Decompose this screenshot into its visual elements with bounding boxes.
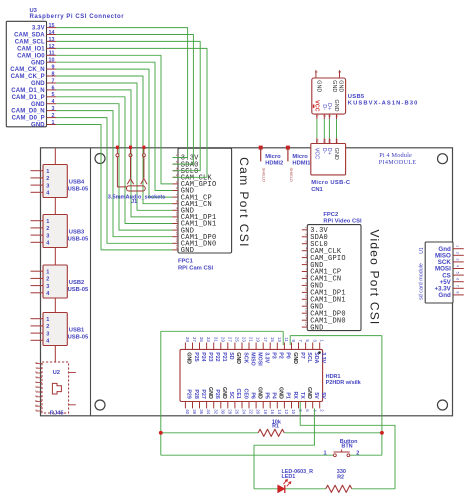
svg-text:1: 1 — [455, 245, 459, 247]
HDR1 top pin 5 stub — [305, 343, 307, 350]
svg-text:20: 20 — [256, 409, 261, 414]
connector U3 body — [6, 21, 46, 127]
HDR1 top pin 35 number — [199, 337, 204, 342]
HDR1 bottom pin 18 number — [263, 409, 268, 414]
svg-text:3: 3 — [455, 258, 459, 260]
HDR1 top pin 11 name P0 — [285, 352, 291, 359]
svg-text:3.3V: 3.3V — [320, 352, 326, 363]
HDR1 bottom pin 34 stub — [206, 402, 208, 409]
USB5 pin name GND bottom — [333, 100, 339, 112]
wire red chain USB3 to USB2 — [54, 248, 56, 266]
svg-text:25: 25 — [235, 337, 240, 342]
svg-text:D-: D- — [321, 148, 327, 154]
U1 pin 8 stub — [453, 294, 464, 296]
svg-text:9: 9 — [175, 207, 179, 209]
U1 pin 3 name SCK — [438, 259, 452, 266]
USB5 bottom pin 1 number — [315, 115, 319, 117]
U3 pin 5 name CAM_D1_P — [12, 95, 45, 101]
U3 pin 6 number — [52, 85, 55, 91]
FPC1 pin 1 name 3.3V — [181, 155, 199, 163]
U3 pin 13 number — [49, 37, 55, 43]
U1 pin 4 stub — [453, 268, 464, 270]
svg-text:A3: A3 — [328, 139, 332, 143]
FPC1 pin 3 stub — [173, 170, 179, 172]
U2 RJ45 jack symbol — [52, 383, 61, 394]
FPC2 pin 14 stub — [302, 319, 308, 321]
FPC2 pin 7 name CAM1_CP — [310, 269, 341, 277]
U1 pin 4 name MOSI — [435, 266, 451, 273]
svg-text:17: 17 — [263, 337, 268, 342]
audio jack J1 reference J1 — [131, 199, 137, 205]
HDR1 bottom pin 40 name P29 — [186, 389, 192, 398]
wire right rail vertical node B — [381, 336, 383, 456]
svg-text:8: 8 — [175, 200, 179, 202]
svg-text:14: 14 — [304, 315, 308, 319]
HDR1 top pin 23 name SCK — [242, 352, 248, 363]
svg-text:15: 15 — [175, 244, 179, 248]
HDR1 bottom pin 14 stub — [276, 402, 278, 409]
FPC2 pin 5 name CAM_GPIO — [310, 255, 346, 263]
HDR1 top pin 27 stub — [227, 343, 229, 350]
svg-text:4: 4 — [304, 247, 308, 249]
USB4 label USB4 — [69, 180, 85, 186]
svg-text:SDA: SDA — [313, 352, 319, 363]
HDR1 bottom pin 40 number — [185, 409, 190, 414]
svg-text:TX: TX — [299, 392, 305, 399]
HDR1 bottom pin 18 stub — [262, 402, 264, 409]
svg-text:8: 8 — [304, 275, 308, 277]
FPC2 pin 11 number — [304, 294, 308, 298]
svg-text:USB2: USB2 — [69, 280, 84, 286]
wire loop2 from HDR1 pin 9 vertical — [289, 336, 291, 345]
svg-text:CAM_SCL: CAM_SCL — [15, 40, 45, 46]
svg-text:USB4: USB4 — [69, 180, 85, 186]
svg-text:D-: D- — [321, 104, 327, 110]
USB4 pin 1 stub — [31, 170, 44, 172]
USB1 pin 4 stub — [31, 339, 44, 341]
wire R1 row left segment — [161, 432, 258, 434]
resistor R2 value 330 — [337, 469, 346, 475]
svg-text:3.3V: 3.3V — [32, 26, 45, 32]
connector HDMI1 label HDMI1 — [292, 161, 311, 167]
module PI4MODULE internal left edge line — [90, 148, 92, 416]
U3 pin 12 number — [49, 44, 55, 50]
HDR1 top pin 25 number — [235, 337, 240, 342]
svg-text:4: 4 — [455, 265, 459, 267]
resistor R1 body — [258, 429, 284, 436]
U1 pin 5 number — [455, 272, 459, 274]
HDR1 bottom pin 36 number — [199, 409, 204, 414]
svg-text:D+: D+ — [326, 148, 332, 155]
svg-text:30: 30 — [220, 409, 225, 414]
FPC2 pin 7 stub — [302, 271, 308, 273]
svg-text:38: 38 — [192, 409, 197, 414]
svg-text:22: 22 — [249, 409, 254, 414]
FPC2 pin 4 name CAM_CLK — [310, 248, 342, 256]
U3 pin 14 name CAM_SDA — [14, 33, 45, 39]
FPC2 value RPi Video CSI — [323, 218, 362, 224]
svg-text:GND: GND — [278, 387, 284, 399]
svg-text:11: 11 — [284, 337, 289, 342]
CN1 reference CN1 — [311, 187, 323, 193]
FPC2 pin 3 stub — [302, 243, 308, 245]
U1 pin 3 number — [455, 258, 459, 260]
svg-text:GND: GND — [338, 80, 344, 92]
HDR1 bottom pin 16 stub — [269, 402, 271, 409]
FPC1 pin 10 name CAM1_DP1 — [181, 214, 217, 222]
FPC2 pin 6 stub — [302, 264, 308, 266]
audio jack J1 ring contact — [141, 157, 147, 185]
FPC1 pin 2 number — [175, 161, 179, 163]
svg-text:5: 5 — [304, 254, 308, 256]
FPC2 pin 13 name CAM1_DP0 — [310, 310, 346, 318]
USB2 pin 4 stub — [31, 292, 44, 294]
HDR1 top pin 3 number — [312, 339, 317, 342]
HDR1 top pin 27 name SD — [228, 352, 234, 360]
audio jack J1 plug body — [127, 186, 146, 191]
wire USB5 pin 2 to CN1 — [323, 119, 325, 138]
connector HDMI2 label Micro — [265, 154, 281, 160]
resistor R1 reference — [272, 423, 279, 429]
U3 pin 6 stub — [47, 89, 57, 91]
U3 pin 6 name CAM_D1_N — [11, 88, 45, 94]
HDR1 top pin 33 stub — [206, 343, 208, 350]
HDR1 bottom pin 18 name P5 — [264, 392, 270, 399]
FPC1 pin 12 name GND — [181, 227, 194, 235]
wire USB5 pin 4 to CN1 — [336, 119, 338, 138]
U2 right pin stub lower — [69, 404, 76, 406]
svg-text:6: 6 — [304, 261, 308, 263]
HDR1 top pin 11 stub — [283, 343, 285, 350]
wire USB5 pin 3 to CN1 — [328, 119, 330, 138]
USB2 pin 4 number — [46, 291, 50, 297]
svg-text:7: 7 — [175, 194, 179, 196]
CN1 top pin 2 number — [323, 139, 327, 143]
U3 pin 13 stub — [47, 40, 57, 42]
HDR1 bottom pin 40 stub — [184, 402, 186, 409]
svg-text:Gnd: Gnd — [438, 292, 451, 299]
USB2 pin 3 number — [46, 284, 49, 290]
connector HDMI1 label Micro — [292, 154, 308, 160]
U3 pin 11 number — [49, 51, 55, 57]
svg-text:4: 4 — [34, 381, 38, 383]
U1 pin 2 name MISO — [435, 253, 451, 260]
wire CAM_SCL U3 pin 13 to FPC1 pin 3 — [56, 41, 200, 170]
HDR1 top pin 17 number — [263, 337, 268, 342]
FPC2 pin 14 name CAM1_DN0 — [310, 317, 346, 325]
U3 pin 9 name CAM_CK_N — [10, 67, 45, 73]
connector HDMI1 pin pad — [286, 146, 290, 150]
svg-text:P26: P26 — [214, 389, 220, 398]
USB4 pin 4 number — [46, 191, 50, 197]
svg-text:FPC2: FPC2 — [323, 212, 338, 218]
U1 pin 1 number — [455, 245, 459, 247]
svg-text:37: 37 — [192, 337, 197, 342]
svg-text:SHIELD: SHIELD — [262, 168, 267, 183]
HDR1 top pin 29 stub — [220, 343, 222, 350]
HDR1 top pin 29 name P21 — [221, 352, 227, 361]
HDR1 top pin 19 number — [256, 337, 261, 342]
svg-text:CAM_CK_N: CAM_CK_N — [10, 67, 45, 73]
HDR1 bottom pin 22 stub — [248, 402, 250, 409]
U3 pin 2 name CAM_D0_P — [12, 116, 45, 122]
button BTN reference BTN — [341, 444, 352, 450]
U1 pin 5 stub — [453, 274, 464, 276]
U3 pin 11 name CAM_IO0 — [17, 53, 45, 59]
wire button row right segment — [350, 454, 382, 456]
svg-text:11: 11 — [175, 218, 179, 222]
svg-text:29: 29 — [220, 337, 225, 342]
svg-text:13: 13 — [277, 337, 282, 342]
svg-text:2: 2 — [46, 176, 49, 182]
USB3 pin 2 number — [46, 226, 49, 232]
HDR1 top pin 1 number — [319, 339, 324, 342]
USB4 pin 2 stub — [31, 177, 44, 179]
CN1 top pin 3 stub — [328, 138, 330, 143]
HDR1 bottom pin 26 name CE1 — [235, 388, 241, 398]
svg-text:HDMI1: HDMI1 — [292, 161, 311, 167]
USB5 bottom pin 3 stub — [328, 114, 330, 119]
FPC1 value RPi Cam CSI — [178, 266, 214, 272]
FPC1 pin 14 name CAM1_DN0 — [181, 241, 217, 249]
FPC1 pin 14 number — [175, 238, 179, 242]
FPC1 pin 4 name CAM_CLK — [181, 175, 213, 183]
svg-text:CAM_CK_P: CAM_CK_P — [11, 74, 45, 80]
HDR1 top pin 5 number — [305, 339, 310, 342]
svg-text:Raspberry Pi CSI Connector: Raspberry Pi CSI Connector — [30, 14, 125, 20]
USB1 pin 3 stub — [31, 332, 44, 334]
svg-text:3: 3 — [328, 115, 332, 117]
FPC1 pin 7 number — [175, 194, 179, 196]
FPC1 pin 12 stub — [173, 229, 179, 231]
FPC2 pin 10 stub — [302, 291, 308, 293]
USB3 pin 4 stub — [31, 241, 44, 243]
svg-text:36: 36 — [199, 409, 204, 414]
connector HDMI1 pin stub — [287, 148, 289, 162]
audio jack J1 value 3.5mmAudio_sockets — [108, 194, 166, 200]
U3 pin 3 name CAM_D0_N — [11, 109, 45, 115]
svg-text:Micro: Micro — [292, 154, 308, 160]
HDR1 bottom pin 22 name P6 — [249, 392, 255, 399]
module title PI4MODULE — [379, 160, 417, 166]
svg-text:U1: U1 — [419, 247, 425, 254]
HDR1 top pin 1 name 3.3V — [320, 352, 326, 363]
svg-text:GND: GND — [292, 352, 298, 364]
U3 pin 10 number — [49, 58, 55, 64]
svg-text:12: 12 — [175, 225, 179, 229]
HDR1 bottom pin 8 number — [298, 409, 303, 412]
HDR1 bottom pin 38 name P28 — [193, 389, 199, 398]
HDR1 bottom pin 28 stub — [227, 402, 229, 409]
HDR1 top pin 29 number — [220, 337, 225, 342]
U1 pin 6 name +5V — [440, 279, 452, 286]
FPC1 pin 2 stub — [173, 163, 179, 165]
mounting hole top-left — [95, 154, 105, 164]
svg-text:MOSI: MOSI — [256, 352, 262, 366]
U1 pin 7 number — [455, 285, 459, 287]
U3 pin 1 number — [52, 120, 55, 126]
svg-text:P1: P1 — [285, 392, 291, 399]
FPC1 pin 15 stub — [173, 249, 179, 251]
HDR1 top pin 27 number — [227, 337, 232, 342]
FPC1 pin 15 number — [175, 244, 179, 248]
svg-text:P22: P22 — [214, 352, 220, 361]
USB2 pin 3 stub — [31, 285, 44, 287]
U3 pin 9 number — [52, 65, 55, 71]
svg-text:1: 1 — [315, 115, 319, 117]
wire USB5 pin 1 to CN1 — [316, 119, 318, 138]
svg-text:GND: GND — [31, 123, 45, 129]
svg-text:GND: GND — [207, 387, 213, 399]
wire CAM_D0_N U3 pin 3 to FPC1 pin 13 — [56, 111, 172, 237]
svg-text:2: 2 — [323, 115, 327, 117]
button BTN pin 1 number — [324, 450, 327, 456]
svg-text:GND: GND — [333, 148, 339, 160]
CN1 pin name GND — [333, 148, 339, 160]
FPC2 pin 15 name GND — [310, 324, 323, 332]
HDR1 top pin 33 name P23 — [207, 352, 213, 361]
svg-text:RJ45: RJ45 — [50, 410, 65, 416]
connector U2 dashed body — [42, 362, 69, 413]
USB5 pin name GND left — [316, 80, 322, 92]
U3 pin 7 name GND — [31, 81, 45, 87]
FPC2 pin 15 stub — [302, 326, 308, 328]
wire CAM_IO0 U3 pin 11 to FPC1 pin 5 — [56, 55, 172, 184]
USB3 pin 1 number — [46, 219, 49, 225]
USB1 pin 4 number — [46, 339, 50, 345]
wire red chain USB2 to USB1 — [54, 298, 56, 313]
svg-text:2: 2 — [34, 390, 38, 392]
svg-text:2: 2 — [356, 450, 359, 456]
HDR1 top pin 19 name MOSI — [256, 352, 262, 366]
USB5 bottom pin 1 stub — [316, 114, 318, 119]
U1 pin 6 stub — [453, 281, 464, 283]
USB5 top pin 6 stub — [315, 70, 317, 78]
HDR1 reference HDR1 — [326, 374, 341, 380]
connector HDMI2 label HDMI2 — [265, 161, 283, 167]
CN1 top pin 2 stub — [323, 138, 325, 143]
FPC2 pin 4 number — [304, 247, 308, 249]
HDR1 bottom pin 20 stub — [255, 402, 257, 409]
FPC1 pin 5 stub — [173, 183, 179, 185]
USB5 bottom pin 3 number — [328, 115, 332, 117]
svg-text:SCK: SCK — [242, 352, 248, 363]
svg-text:2: 2 — [46, 226, 49, 232]
HDR1 top pin 3 stub — [312, 343, 314, 350]
HDR1 top pin 33 number — [206, 337, 211, 342]
U3 pin 5 stub — [47, 96, 57, 98]
USB4 pin 2 number — [46, 176, 49, 182]
FPC2 pin 1 name 3.3V — [310, 227, 328, 235]
wire CAM_D0_P U3 pin 2 to FPC1 pin 14 — [56, 118, 172, 244]
svg-text:15: 15 — [304, 322, 308, 326]
svg-text:R2: R2 — [337, 475, 344, 481]
svg-text:P2: P2 — [278, 352, 284, 359]
U3 pin 8 number — [52, 71, 55, 77]
USB5 bottom pin 4 number — [335, 115, 339, 117]
svg-text:Micro: Micro — [265, 154, 281, 160]
USB3 pin 2 stub — [31, 227, 44, 229]
HDR1 bottom pin 14 name GND — [278, 387, 284, 399]
svg-text:RX: RX — [292, 391, 298, 399]
U3 pin 13 name CAM_SCL — [15, 40, 45, 46]
svg-text:35: 35 — [199, 337, 204, 342]
svg-text:CAM_IO1: CAM_IO1 — [17, 47, 45, 53]
HDR1 bottom pin 30 stub — [220, 402, 222, 409]
LED LED1 label LED-0603_R — [282, 469, 314, 475]
svg-text:14: 14 — [277, 409, 282, 414]
button BTN label Button — [340, 439, 358, 445]
HDR1 bottom pin 32 stub — [213, 402, 215, 409]
svg-text:1: 1 — [46, 269, 49, 275]
USB5 pin1 tick — [313, 105, 315, 108]
connector HDMI1 SHIELD pin name — [289, 168, 294, 183]
svg-text:7: 7 — [34, 367, 38, 369]
FPC2 pin 15 number — [304, 322, 308, 326]
U3 pin 11 stub — [47, 54, 57, 56]
FPC2 pin 12 stub — [302, 305, 308, 307]
HDR1 top pin 17 name 3.3V — [264, 352, 270, 363]
USB5 pin name VCC — [313, 100, 319, 111]
junction node B dot — [380, 431, 384, 435]
FPC1 pin 10 number — [175, 211, 179, 215]
FPC2 pin 14 number — [304, 315, 308, 319]
svg-text:5: 5 — [175, 181, 179, 183]
HDR1 bottom pin 16 number — [270, 409, 275, 414]
svg-text:10: 10 — [175, 211, 179, 215]
svg-text:39: 39 — [185, 337, 190, 342]
svg-text:USB3: USB3 — [69, 230, 85, 236]
svg-text:P3: P3 — [271, 352, 277, 359]
svg-text:USB1: USB1 — [69, 328, 85, 334]
HDR1 top pin 25 name GND — [235, 352, 241, 364]
FPC1 pin 4 number — [175, 174, 179, 176]
svg-text:CE1: CE1 — [235, 388, 241, 398]
FPC1 pin 6 number — [175, 187, 179, 189]
HDR1 bottom pin 20 name GND — [256, 387, 262, 399]
FPC1 pin 8 name CAM1_CN — [181, 201, 212, 209]
FPC1 pin 4 stub — [173, 176, 179, 178]
HDR1 bottom pin 24 name CE0 — [242, 388, 248, 398]
HDR1 top pin 23 stub — [241, 343, 243, 350]
FPC1 pin 1 stub — [173, 157, 179, 159]
svg-text:GND: GND — [235, 352, 241, 364]
FPC2 pin 2 number — [304, 233, 308, 235]
USB3 pin 1 stub — [31, 220, 44, 222]
USB5 top pin 5 number — [338, 71, 342, 73]
HDR1 bottom pin 2 name 5V — [320, 392, 326, 399]
svg-text:GND: GND — [310, 324, 323, 332]
svg-text:GND: GND — [181, 247, 194, 255]
FPC2 pin 2 stub — [302, 236, 308, 238]
CN1 top pin 3 number — [328, 139, 332, 143]
svg-text:P23: P23 — [207, 352, 213, 361]
FPC2 pin 12 number — [304, 301, 308, 305]
svg-text:26: 26 — [235, 409, 240, 414]
svg-text:CAM_D0_N: CAM_D0_N — [11, 109, 45, 115]
U1 pin 4 number — [455, 265, 459, 267]
FPC2 pin 13 stub — [302, 312, 308, 314]
mounting hole bottom-right — [438, 400, 448, 410]
U1 pin 2 stub — [453, 254, 464, 256]
connector HDR1 body — [180, 349, 323, 401]
audio jack J1 sleeve pin wire — [117, 157, 126, 187]
svg-text:SCL: SCL — [306, 352, 312, 363]
FPC2 pin 9 number — [304, 282, 308, 284]
U3 pin 15 number — [49, 23, 55, 29]
FPC2 pin 12 name GND — [310, 303, 323, 311]
FPC1 reference FPC1 — [178, 259, 194, 265]
